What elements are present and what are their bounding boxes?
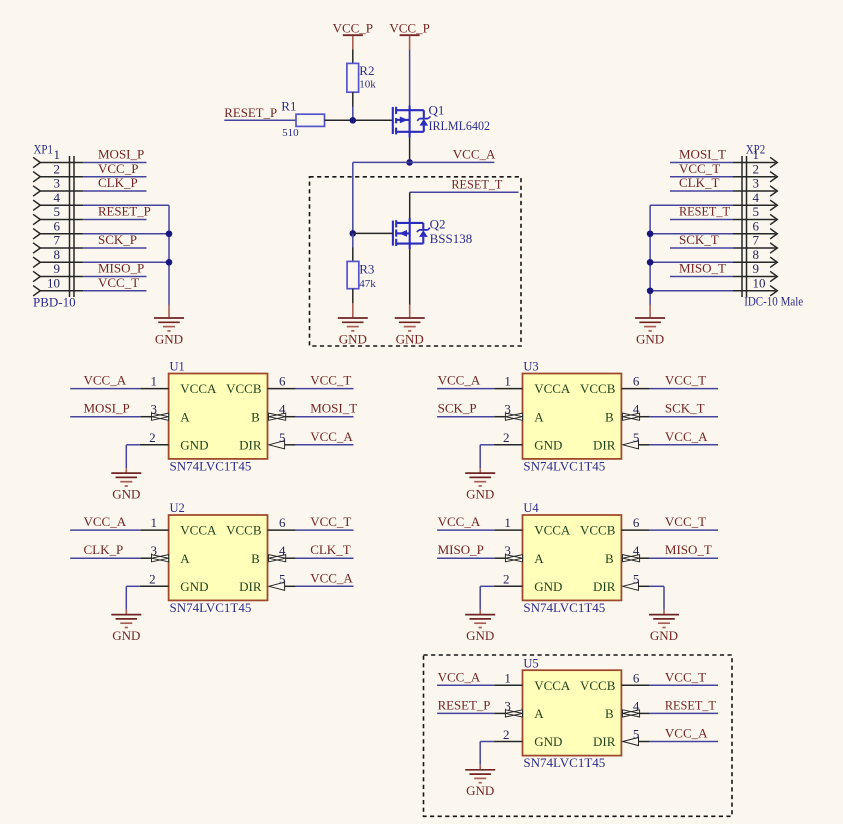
U1 pin 1 — [140, 374, 168, 389]
svg-text:VCC_T: VCC_T — [665, 669, 706, 684]
wire net MISO_P — [83, 276, 146, 278]
net label VCC_A — [310, 429, 353, 444]
net label VCC_A — [438, 514, 481, 529]
XP2 pin 7 — [733, 233, 777, 254]
svg-text:DIR: DIR — [593, 734, 616, 749]
wire net VCC_A pin1 — [437, 529, 494, 531]
XP2 pin 6 — [733, 218, 777, 239]
wire node to R3 — [352, 233, 354, 247]
wire net MISO_P pin3 — [437, 557, 494, 559]
XP2 pin 10 — [733, 275, 777, 296]
wire R1 to Q1 gate — [325, 119, 393, 121]
U2 part SN74LVC1T45 — [170, 600, 252, 615]
dashed box U5 option — [424, 655, 733, 816]
svg-text:VCCA: VCCA — [180, 523, 217, 538]
wire Q1 drain to VCC_A — [409, 138, 411, 163]
connector XP2 type IDC-10 Male — [744, 294, 803, 309]
wire net VCC_T pin6 — [296, 388, 354, 390]
wire net VCC_A pin1 — [70, 388, 140, 390]
U2 pin 6 — [268, 515, 296, 530]
svg-text:4: 4 — [54, 190, 61, 205]
svg-text:GND: GND — [534, 437, 562, 452]
XP1 pin 7 — [33, 233, 83, 254]
svg-text:VCC_A: VCC_A — [665, 429, 708, 444]
XP1 pin 4 — [33, 190, 83, 211]
XP2 pin 2 — [733, 161, 777, 182]
svg-text:VCC_A: VCC_A — [438, 514, 481, 529]
net label MISO_P — [438, 542, 484, 557]
svg-text:GND: GND — [112, 486, 140, 501]
wire U3 pin2 to ground — [480, 445, 494, 468]
wire net CLK_T pin4 — [296, 557, 354, 559]
op-amp U4 body — [523, 515, 622, 600]
svg-text:VCC_P: VCC_P — [389, 20, 429, 35]
XP1 pin 6 — [33, 218, 83, 239]
svg-text:SN74LVC1T45: SN74LVC1T45 — [523, 600, 605, 615]
svg-text:GND: GND — [636, 331, 664, 346]
ground GND under XP2 — [635, 305, 665, 347]
dashed box reset level shifter — [310, 177, 522, 346]
net label VCC_A — [438, 669, 481, 684]
net label RESET_T — [679, 204, 730, 219]
svg-text:47k: 47k — [359, 278, 376, 290]
wire net VCC_A pin1 — [437, 388, 494, 390]
wire net VCC_T pin6 — [296, 529, 354, 531]
svg-text:3: 3 — [504, 698, 511, 713]
wire net VCC_A pin5 — [296, 585, 354, 587]
wire XP2 pin 4 to GND bus — [650, 204, 733, 206]
U5 pin 6 — [621, 670, 649, 685]
net label VCC_T — [665, 373, 706, 388]
svg-text:VCC_P: VCC_P — [98, 161, 138, 176]
wire VCC_P to Q1 source — [409, 50, 411, 106]
svg-text:RESET_P: RESET_P — [224, 105, 277, 120]
U4 pin 1 — [494, 515, 522, 530]
svg-text:9: 9 — [753, 261, 760, 276]
svg-text:R1: R1 — [281, 99, 296, 114]
svg-text:2: 2 — [753, 161, 760, 176]
ground GND under Q2 — [395, 305, 425, 347]
wire net SCK_P — [83, 247, 146, 249]
svg-text:SN74LVC1T45: SN74LVC1T45 — [170, 459, 252, 474]
junction XP2 bus pin8 — [647, 259, 654, 266]
XP1 pin 8 — [33, 247, 83, 268]
svg-text:MISO_P: MISO_P — [98, 261, 144, 276]
wire net RESET_P pin3 — [437, 712, 494, 714]
svg-text:2: 2 — [503, 430, 510, 445]
U3 designator — [523, 360, 538, 374]
wire net VCC_A pin5 — [296, 444, 354, 446]
svg-text:GND: GND — [534, 579, 562, 594]
net label VCC_T — [310, 373, 351, 388]
net label VCC_A — [438, 373, 481, 388]
svg-text:VCCB: VCCB — [580, 523, 616, 538]
svg-text:R3: R3 — [359, 261, 374, 276]
svg-text:3: 3 — [504, 402, 511, 417]
svg-text:GND: GND — [466, 628, 494, 643]
svg-text:VCC_A: VCC_A — [438, 669, 481, 684]
ground GND under XP1 — [154, 305, 184, 347]
svg-text:VCC_A: VCC_A — [665, 726, 708, 741]
svg-text:DIR: DIR — [239, 579, 262, 594]
U3 pin 4 — [623, 402, 650, 421]
ground GND U5 — [465, 765, 495, 798]
U5 pin 2 — [494, 727, 523, 742]
connector XP1 body bars — [70, 156, 75, 297]
net label VCC_T — [98, 275, 139, 290]
U2 pin 3 — [140, 543, 168, 562]
connector XP1 type PBD-10 — [33, 294, 76, 309]
wire net MISO_T — [670, 276, 733, 278]
svg-text:GND: GND — [180, 437, 208, 452]
wire net VCC_T — [83, 290, 146, 292]
svg-text:CLK_P: CLK_P — [84, 542, 124, 557]
net label VCC_T — [665, 514, 706, 529]
svg-text:7: 7 — [753, 233, 760, 248]
svg-text:RESET_T: RESET_T — [451, 176, 502, 191]
net label RESET_T — [665, 697, 716, 712]
svg-text:10: 10 — [47, 275, 60, 290]
net label CLK_T — [310, 542, 351, 557]
wire net VCC_A pin1 — [437, 684, 494, 686]
svg-text:SN74LVC1T45: SN74LVC1T45 — [523, 755, 605, 770]
U3 pin 2 — [494, 430, 523, 445]
U5 pin 5 — [623, 727, 650, 746]
svg-text:5: 5 — [633, 571, 640, 586]
U4 pin 5 — [623, 571, 650, 590]
svg-text:DIR: DIR — [239, 437, 262, 452]
svg-text:6: 6 — [753, 218, 760, 233]
wire XP2 GND bus vertical — [649, 205, 651, 304]
U1 part SN74LVC1T45 — [170, 459, 252, 474]
svg-text:U4: U4 — [523, 501, 539, 515]
wire net MOSI_P pin3 — [70, 416, 140, 418]
svg-text:6: 6 — [279, 515, 286, 530]
svg-text:3: 3 — [151, 543, 158, 558]
ground GND U3 — [465, 468, 495, 501]
node VCC_A junction — [406, 159, 413, 166]
net label VCC_T — [310, 514, 351, 529]
svg-text:MOSI_P: MOSI_P — [98, 147, 144, 162]
svg-text:DIR: DIR — [593, 437, 616, 452]
wire net MOSI_T — [670, 162, 733, 164]
wire U2 pin2 to ground — [126, 586, 140, 609]
svg-text:B: B — [605, 706, 614, 721]
wire VCC_A left — [353, 161, 410, 163]
svg-text:1: 1 — [54, 147, 61, 162]
op-amp U2 body — [169, 515, 268, 600]
net label VCC_A — [665, 726, 708, 741]
U2 pin 1 — [140, 515, 168, 530]
wire net MISO_T pin4 — [650, 557, 718, 559]
net label RESET_P — [438, 697, 491, 712]
svg-text:MOSI_T: MOSI_T — [679, 147, 726, 162]
svg-text:VCC_T: VCC_T — [310, 514, 351, 529]
U4 pin 2 — [494, 572, 523, 587]
net label MOSI_P — [84, 401, 130, 416]
svg-text:5: 5 — [633, 430, 640, 445]
wire net VCC_T pin6 — [650, 529, 718, 531]
XP2 pin 4 — [733, 190, 777, 211]
wire net SCK_P pin3 — [437, 416, 494, 418]
resistor R3 — [347, 248, 376, 304]
svg-text:SN74LVC1T45: SN74LVC1T45 — [523, 459, 605, 474]
svg-text:VCCA: VCCA — [534, 678, 571, 693]
svg-text:7: 7 — [54, 233, 61, 248]
wire net VCC_P — [83, 176, 146, 178]
svg-text:B: B — [605, 409, 614, 424]
svg-text:VCCB: VCCB — [580, 678, 616, 693]
wire net SCK_T pin4 — [650, 416, 718, 418]
svg-text:IRLML6402: IRLML6402 — [429, 118, 491, 133]
svg-text:CLK_T: CLK_T — [310, 542, 351, 557]
net label VCC_A — [310, 570, 353, 585]
svg-text:4: 4 — [279, 543, 286, 558]
svg-text:VCC_A: VCC_A — [438, 373, 481, 388]
wire Q2 source down — [409, 249, 411, 305]
svg-text:VCC_A: VCC_A — [310, 570, 353, 585]
XP2 pin 3 — [733, 176, 777, 197]
U4 pin 4 — [623, 543, 650, 562]
svg-text:2: 2 — [149, 430, 156, 445]
wire net RESET_P — [83, 219, 146, 221]
net label SCK_T — [679, 232, 719, 247]
svg-text:VCCB: VCCB — [226, 381, 262, 396]
wire XP2 pin 8 to GND bus — [650, 261, 733, 263]
net label SCK_P — [438, 401, 477, 416]
wire RESET_T to Q2 drain — [409, 192, 411, 218]
transistor Q1 — [393, 103, 490, 138]
net label CLK_T — [679, 175, 720, 190]
svg-text:CLK_P: CLK_P — [98, 175, 138, 190]
wire XP1 GND bus vertical — [168, 205, 170, 304]
net label VCC_A — [84, 514, 127, 529]
svg-text:A: A — [534, 706, 544, 721]
wire net VCC_A pin1 — [70, 529, 140, 531]
svg-text:6: 6 — [54, 218, 61, 233]
U3 part SN74LVC1T45 — [523, 459, 605, 474]
U5 pin 4 — [623, 698, 650, 717]
wire net VCC_T pin6 — [650, 684, 718, 686]
svg-text:1: 1 — [504, 670, 511, 685]
svg-text:VCC_T: VCC_T — [679, 161, 720, 176]
svg-text:RESET_T: RESET_T — [665, 697, 716, 712]
wire net CLK_P pin3 — [70, 557, 140, 559]
ground GND U4 — [465, 610, 495, 643]
svg-text:2: 2 — [503, 572, 510, 587]
svg-text:1: 1 — [151, 515, 158, 530]
wire RESET_T — [410, 191, 519, 193]
wire net VCC_T — [670, 176, 733, 178]
U1 pin 3 — [140, 402, 168, 421]
U3 pin 6 — [621, 374, 649, 389]
XP1 pin 1 — [33, 147, 83, 168]
svg-text:GND: GND — [466, 783, 494, 798]
svg-text:VCC_P: VCC_P — [333, 20, 373, 35]
svg-text:MOSI_T: MOSI_T — [310, 401, 357, 416]
op-amp U5 body — [523, 670, 622, 755]
wire XP1 pin 4 to GND bus — [83, 204, 169, 206]
wire VCC_A right — [410, 161, 495, 163]
net label RESET_P — [98, 204, 151, 219]
svg-text:2: 2 — [503, 727, 510, 742]
XP1 pin 2 — [33, 161, 83, 182]
svg-text:2: 2 — [54, 161, 61, 176]
net label MOSI_P — [98, 147, 144, 162]
XP2 pin 5 — [733, 204, 777, 225]
XP1 pin 3 — [33, 176, 83, 197]
wire RESET_P to R1 — [224, 119, 296, 121]
svg-text:8: 8 — [54, 247, 61, 262]
svg-text:VCC_A: VCC_A — [310, 429, 353, 444]
svg-text:GND: GND — [534, 734, 562, 749]
svg-text:MOSI_P: MOSI_P — [84, 401, 130, 416]
wire net VCC_T pin6 — [650, 388, 718, 390]
net label VCC_T — [665, 669, 706, 684]
net label MISO_T — [665, 542, 712, 557]
U3 pin 3 — [494, 402, 522, 421]
svg-text:4: 4 — [633, 402, 640, 417]
resistor R2 — [347, 50, 376, 107]
svg-text:VCCA: VCCA — [534, 381, 571, 396]
net label RESET_T — [451, 176, 502, 191]
svg-text:SN74LVC1T45: SN74LVC1T45 — [170, 600, 252, 615]
wire net RESET_T pin4 — [650, 712, 718, 714]
U2 designator — [170, 501, 185, 515]
svg-text:VCCB: VCCB — [580, 381, 616, 396]
svg-text:GND: GND — [155, 331, 183, 346]
net label VCC_T — [679, 161, 720, 176]
svg-text:B: B — [251, 409, 260, 424]
svg-text:B: B — [605, 551, 614, 566]
svg-text:VCC_T: VCC_T — [98, 275, 139, 290]
U4 part SN74LVC1T45 — [523, 600, 605, 615]
U1 pin 2 — [140, 430, 169, 445]
svg-text:GND: GND — [466, 486, 494, 501]
wire net VCC_A pin5 — [650, 444, 718, 446]
XP1 pin 9 — [33, 261, 83, 282]
svg-text:XP1: XP1 — [34, 143, 54, 157]
svg-text:VCC_T: VCC_T — [665, 514, 706, 529]
net label MISO_T — [679, 261, 726, 276]
ground GND under R3 — [338, 303, 368, 346]
net label RESET_P — [224, 105, 277, 120]
net label CLK_P — [98, 175, 138, 190]
ground GND U1 — [111, 468, 141, 501]
transistor Q2 — [393, 217, 472, 250]
U5 pin 1 — [494, 670, 522, 685]
junction XP2 bus pin6 — [647, 230, 654, 237]
svg-text:4: 4 — [633, 698, 640, 713]
svg-text:4: 4 — [279, 402, 286, 417]
svg-text:GND: GND — [180, 579, 208, 594]
wire net VCC_A pin5 — [650, 741, 718, 743]
net label CLK_P — [84, 542, 124, 557]
wire U4 pin2 to ground — [480, 586, 494, 609]
power port VCC_P left — [333, 20, 373, 49]
XP1 pin 5 — [33, 204, 83, 225]
U1 designator — [170, 360, 185, 374]
node Q2 gate junction — [350, 230, 357, 237]
svg-text:5: 5 — [279, 430, 286, 445]
wire XP1 pin 6 to GND bus — [83, 233, 169, 235]
U5 part SN74LVC1T45 — [523, 755, 605, 770]
svg-text:1: 1 — [753, 147, 760, 162]
svg-text:6: 6 — [279, 374, 286, 389]
svg-text:IDC-10 Male: IDC-10 Male — [744, 294, 803, 309]
junction XP1 bus pin6 — [166, 230, 173, 237]
svg-text:VCCB: VCCB — [226, 523, 262, 538]
svg-text:R2: R2 — [359, 63, 374, 78]
junction XP2 bus pin10 — [647, 287, 654, 294]
svg-text:MISO_P: MISO_P — [438, 542, 484, 557]
wire XP2 pin 10 to GND bus — [650, 290, 733, 292]
junction XP1 bus pin8 — [166, 259, 173, 266]
U3 pin 5 — [623, 430, 650, 449]
net label VCC_A — [453, 146, 496, 161]
wire net RESET_T — [670, 219, 733, 221]
svg-text:6: 6 — [633, 515, 640, 530]
svg-text:6: 6 — [633, 374, 640, 389]
svg-text:3: 3 — [753, 176, 760, 191]
U4 designator — [523, 501, 539, 515]
wire net SCK_T — [670, 247, 733, 249]
svg-text:PBD-10: PBD-10 — [33, 294, 76, 309]
svg-text:5: 5 — [54, 204, 61, 219]
node gate Q1 junction — [350, 117, 357, 124]
net label VCC_A — [665, 429, 708, 444]
svg-text:GND: GND — [396, 331, 424, 346]
wire XP2 pin 6 to GND bus — [650, 233, 733, 235]
net label MISO_P — [98, 261, 144, 276]
wire net MOSI_P — [83, 162, 146, 164]
wire U5 pin2 to ground — [480, 742, 494, 765]
svg-text:A: A — [180, 409, 190, 424]
net label MOSI_T — [679, 147, 726, 162]
XP2 pin 8 — [733, 247, 777, 268]
U5 pin 3 — [494, 698, 522, 717]
svg-text:4: 4 — [753, 190, 760, 205]
svg-text:U1: U1 — [170, 360, 185, 374]
wire U4 pin5 to ground — [650, 586, 664, 609]
wire XP1 pin 8 to GND bus — [83, 261, 169, 263]
U1 pin 5 — [269, 430, 296, 449]
svg-text:VCC_A: VCC_A — [453, 146, 496, 161]
svg-text:GND: GND — [650, 628, 678, 643]
svg-text:3: 3 — [504, 543, 511, 558]
svg-text:RESET_T: RESET_T — [679, 204, 730, 219]
svg-text:GND: GND — [112, 628, 140, 643]
wire U1 pin2 to ground — [126, 445, 140, 468]
svg-text:VCC_T: VCC_T — [665, 373, 706, 388]
U1 pin 4 — [269, 402, 296, 421]
svg-text:SCK_T: SCK_T — [665, 401, 705, 416]
svg-text:VCC_A: VCC_A — [84, 373, 127, 388]
net label VCC_P — [98, 161, 138, 176]
svg-text:VCC_A: VCC_A — [84, 514, 127, 529]
svg-text:A: A — [534, 409, 544, 424]
svg-text:U5: U5 — [523, 656, 538, 670]
op-amp U3 body — [523, 374, 622, 459]
svg-text:VCCA: VCCA — [534, 523, 571, 538]
wire VCC_A down to Q2 node — [352, 162, 354, 233]
U1 pin 6 — [268, 374, 296, 389]
svg-text:3: 3 — [54, 176, 61, 191]
connector XP1 designator — [34, 143, 54, 157]
U4 pin 6 — [621, 515, 649, 530]
power port VCC_P right — [389, 20, 429, 49]
svg-text:Q2: Q2 — [430, 217, 446, 232]
